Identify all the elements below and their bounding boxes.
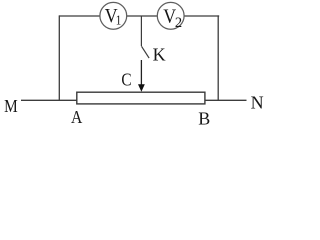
svg-text:A: A: [71, 107, 82, 127]
wire right vertical branch: [217, 15, 219, 101]
wiper arrow shaft: [140, 60, 142, 86]
wire top-left segment: [59, 15, 100, 17]
svg-text:B: B: [198, 109, 210, 129]
resistor box ABN rheostat: [77, 92, 205, 104]
voltmeter V1 circle: [100, 2, 127, 29]
svg-text:C: C: [121, 70, 131, 90]
wire between voltmeters: [127, 15, 158, 17]
wire top-right segment: [184, 15, 219, 17]
wire left vertical branch: [58, 15, 60, 101]
voltmeter V2 circle: [157, 2, 184, 29]
svg-text:1: 1: [116, 14, 122, 29]
svg-text:K: K: [153, 45, 166, 65]
wire resistor to N: [205, 99, 247, 101]
switch K blade: [142, 46, 150, 58]
svg-text:N: N: [251, 93, 264, 113]
wire M to resistor: [21, 99, 77, 101]
svg-text:M: M: [4, 96, 18, 116]
wiper arrow head: [138, 84, 145, 92]
wire switch feed vertical: [140, 16, 142, 46]
svg-text:2: 2: [175, 15, 182, 31]
